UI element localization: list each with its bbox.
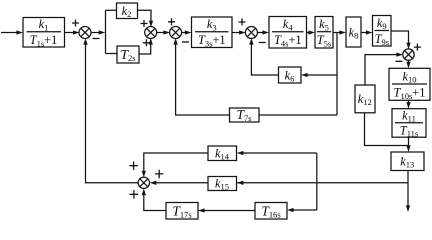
summing junction J2 [145,27,157,39]
wire J6 output feedback to J1 [83,38,138,183]
svg-text:T3s+1: T3s+1 [198,33,226,48]
wire B1 to J1 [65,30,80,34]
svg-text:k14: k14 [215,147,230,162]
svg-text:k2: k2 [122,4,132,19]
svg-text:k10: k10 [403,70,417,85]
svg-text:k13: k13 [400,154,414,169]
block T16s [255,203,287,220]
wire J4 to B4 [257,30,269,34]
wire k11 to k13 with tap to k12 [406,137,410,152]
minus sign J4 bottom input [259,42,266,44]
block k13 [391,152,424,171]
svg-text:T7s: T7s [236,107,251,123]
block B1 k1/(T1s+1) [23,18,65,48]
wire J5 to k10 [406,60,410,68]
plus sign J6 right input [155,170,163,178]
block k6 [279,67,302,83]
wire branch vertical [105,10,107,53]
plus sign J3 left input [168,18,175,25]
svg-text:T10s+1: T10s+1 [394,86,426,101]
block k12 [355,85,375,113]
plus sign J2 bottom input [143,39,150,46]
block T2s [117,46,139,63]
block k15 [208,177,237,191]
wire B3 to J4 [232,30,246,34]
wire T16s to T17s [198,208,255,212]
plus sign J4 left input [239,19,246,26]
svg-text:T2s: T2s [120,47,135,63]
svg-text:T16s: T16s [261,203,280,219]
summing junction J4 [245,27,257,39]
svg-text:k11: k11 [402,108,416,123]
wire to T16s [287,208,317,212]
plus sign J6 bottom input [130,190,138,198]
svg-text:k1: k1 [39,17,49,32]
plus sign J1 left input [72,20,79,27]
wire output branch to k15 [237,181,408,185]
minus sign J5 left input [396,60,403,62]
plus sign J5 top input [414,44,421,51]
wire k5 branch to k6 [301,73,337,77]
wire k12 to J5 [365,52,403,85]
wire T17s to J6 [142,189,166,211]
svg-text:k9: k9 [377,16,387,31]
summing junction J6 [138,177,149,188]
svg-text:k15: k15 [215,177,229,192]
minus sign J1 bottom input [93,38,100,40]
wire k9 to J5 [391,31,411,49]
wire k14 to J6 [142,153,208,177]
block k14 [208,146,237,161]
summing junction J1 [79,27,91,39]
svg-text:k6: k6 [285,69,295,84]
svg-text:T1s+1: T1s+1 [30,33,58,48]
wire J1 to branch point [91,30,106,34]
plus sign J2 top input [141,20,148,27]
wire vertical connector k14 and T16s feed [316,153,318,210]
plus sign J6 top input [129,162,137,170]
wire T2s to J2 [139,38,153,54]
svg-text:k8: k8 [349,26,359,41]
svg-text:T5s: T5s [317,33,331,48]
summing junction J5 [403,49,414,60]
block T7s [230,108,260,122]
block k2 [117,3,138,19]
block B9 k9/T9s [373,16,392,47]
wire k2 to J2 [138,10,154,27]
svg-text:k4: k4 [283,17,294,32]
block B10 k10/(T10s+1) [389,68,430,100]
wire branch down from k5 output [336,33,338,116]
wire to k14 [237,151,317,155]
wire k13 to output [406,171,410,213]
wire k15 to J6 [150,181,208,185]
block k8 [346,17,361,47]
wire branch to k2 [106,9,117,11]
wire B4 to B5 [307,30,316,34]
svg-text:T17s: T17s [172,203,191,219]
block B11 k11/T11s [392,109,426,138]
wire input arrow [1,30,23,34]
wire k5 branch to T7s [259,114,337,116]
svg-text:T11s: T11s [400,123,418,138]
block B3 k3/(T3s+1) [192,17,233,48]
wire J3 to B3 [181,30,191,34]
summing junction J3 [170,27,182,39]
wire k8 to k9 [361,30,373,34]
wire tap to k12 input [365,113,409,146]
svg-text:k5: k5 [319,17,329,32]
block B4 k4/(T4s+1) [269,17,307,49]
svg-text:T9s: T9s [375,32,389,47]
block T17s [166,203,198,220]
wire T7s to J3 [173,38,229,115]
wire B5 to k8 with branch node [333,30,346,34]
svg-text:T4s+1: T4s+1 [274,33,302,48]
wire k10 to k11 [406,100,410,108]
wire k6 to J4 [249,38,278,75]
svg-text:k12: k12 [358,92,372,107]
svg-text:k3: k3 [207,17,217,32]
block B5 k5/T5s [315,17,333,49]
minus sign J3 bottom input [182,41,189,43]
wire branch to T2s [106,53,118,55]
wire J2 to J3 [156,30,170,34]
